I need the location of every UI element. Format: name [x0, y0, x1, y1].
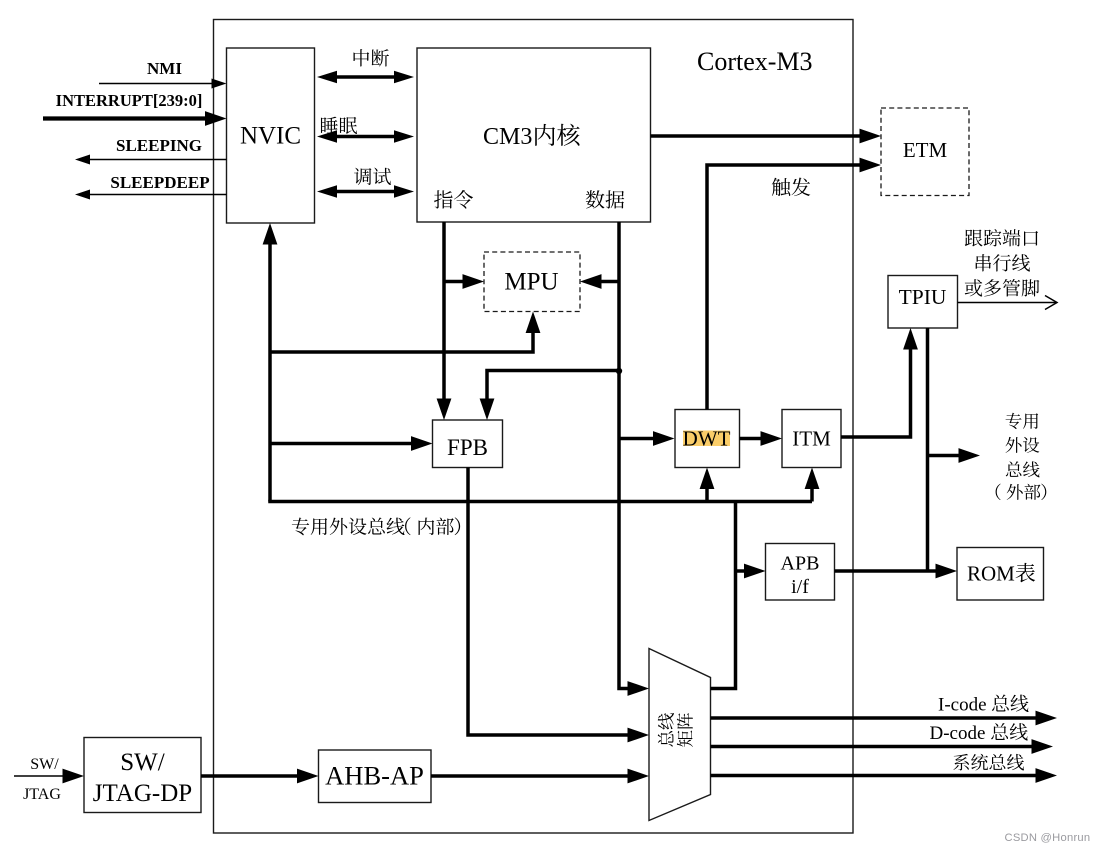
wire PPB riser to DWT [705, 483, 709, 502]
wire data down to bus matrix [619, 222, 634, 689]
wire branch to APB i/f [736, 569, 752, 573]
wire DWT to ITM [740, 437, 769, 441]
label system bus [953, 754, 969, 771]
wire data branch to FPB [487, 371, 619, 407]
svg-text:FPB: FPB [447, 435, 488, 460]
wire instruction branch to MPU [444, 280, 470, 284]
block FPB [433, 420, 503, 468]
svg-text:INTERRUPT[239:0]: INTERRUPT[239:0] [56, 91, 203, 110]
wire data tap to DWT [619, 437, 660, 441]
svg-text:NVIC: NVIC [240, 123, 301, 150]
svg-text:SLEEPDEEP: SLEEPDEEP [110, 173, 209, 192]
block NVIC [227, 48, 315, 223]
wire DWT trigger to ETM [707, 165, 866, 410]
label 睡眠 [321, 117, 338, 134]
svg-text:ITM: ITM [792, 427, 831, 451]
block APB i/f [766, 544, 835, 601]
wire data branch to MPU [594, 280, 619, 284]
wire 睡眠 double arrow NVIC-CM3 [334, 135, 397, 139]
wire APB to ROM table [835, 569, 943, 573]
label 触发 trigger [772, 178, 790, 196]
svg-text:MPU: MPU [504, 269, 558, 296]
wire SW/JTAG input [14, 775, 70, 777]
svg-text:ETM: ETM [903, 138, 948, 162]
wire PPB riser to ITM [810, 483, 814, 502]
wire ITM to TPIU [841, 344, 911, 437]
svg-text:JTAG: JTAG [23, 786, 61, 803]
block bus matrix trapezoid [649, 649, 711, 821]
wire CM3 core to ETM [651, 134, 867, 138]
wire system bus [711, 774, 1037, 778]
wire TPIU down to APB line [926, 328, 930, 573]
block AHB-AP [319, 750, 432, 803]
svg-text:ROM: ROM [967, 562, 1015, 586]
wire branch to MPU bottom [270, 327, 533, 352]
svg-text:AHB-AP: AHB-AP [325, 761, 424, 791]
label PPB internal [292, 517, 309, 535]
wire FPB down to bus matrix [468, 468, 634, 736]
svg-text:i/f: i/f [791, 576, 809, 598]
svg-text:DWT: DWT [683, 427, 731, 451]
wire SLEEPING out of NVIC [88, 159, 227, 161]
label 中断 [354, 49, 370, 66]
block CM3 core [417, 48, 651, 222]
svg-text:TPIU: TPIU [899, 285, 947, 309]
svg-text:Cortex-M3: Cortex-M3 [697, 47, 813, 76]
wire NMI into NVIC [99, 83, 215, 85]
svg-text:I-code: I-code [938, 695, 987, 716]
wire D-code bus [711, 745, 1033, 749]
wire PPB internal horizontal [270, 500, 812, 502]
block ROM table [957, 548, 1044, 601]
Cortex-M3 boundary box [214, 20, 854, 834]
svg-text:CSDN @Honrun: CSDN @Honrun [1005, 832, 1091, 844]
svg-text:SW/: SW/ [120, 749, 165, 776]
label PPB external [1006, 413, 1022, 429]
wire SLEEPDEEP out of NVIC [88, 194, 227, 196]
svg-text:NMI: NMI [147, 59, 182, 78]
wire branch to FPB left [270, 442, 419, 446]
wire instruction down to FPB [442, 222, 446, 406]
svg-text:CM3: CM3 [483, 124, 532, 150]
wire INTERRUPT into NVIC [43, 116, 209, 120]
wire AHB-AP to bus matrix [431, 774, 634, 778]
wire DP to AHB-AP [201, 774, 304, 778]
svg-text:SW/: SW/ [30, 756, 59, 773]
svg-text:JTAG-DP: JTAG-DP [93, 780, 192, 807]
wire PPB down to bus matrix [711, 502, 736, 689]
wire 调试 double arrow NVIC-CM3 [334, 190, 397, 194]
block SW/JTAG-DP [84, 738, 201, 813]
block ETM (dashed) [881, 108, 969, 196]
wire PPB riser into NVIC and internal bus corner [268, 237, 272, 502]
svg-text:APB: APB [781, 553, 820, 575]
svg-text:D-code: D-code [930, 723, 986, 744]
label trace port [965, 229, 983, 246]
wire PPB external arrow [928, 454, 967, 458]
block DWT with highlight [675, 410, 740, 468]
svg-text:SLEEPING: SLEEPING [116, 136, 202, 155]
block TPIU [888, 276, 958, 329]
label 调试 [354, 168, 371, 185]
wire TPIU trace output [958, 302, 1058, 304]
wire 中断 double arrow NVIC-CM3 [334, 75, 397, 79]
junction dot on data line [616, 368, 622, 374]
block ITM [782, 410, 841, 468]
block MPU (dashed) [484, 252, 580, 312]
wire I-code bus [711, 716, 1037, 720]
